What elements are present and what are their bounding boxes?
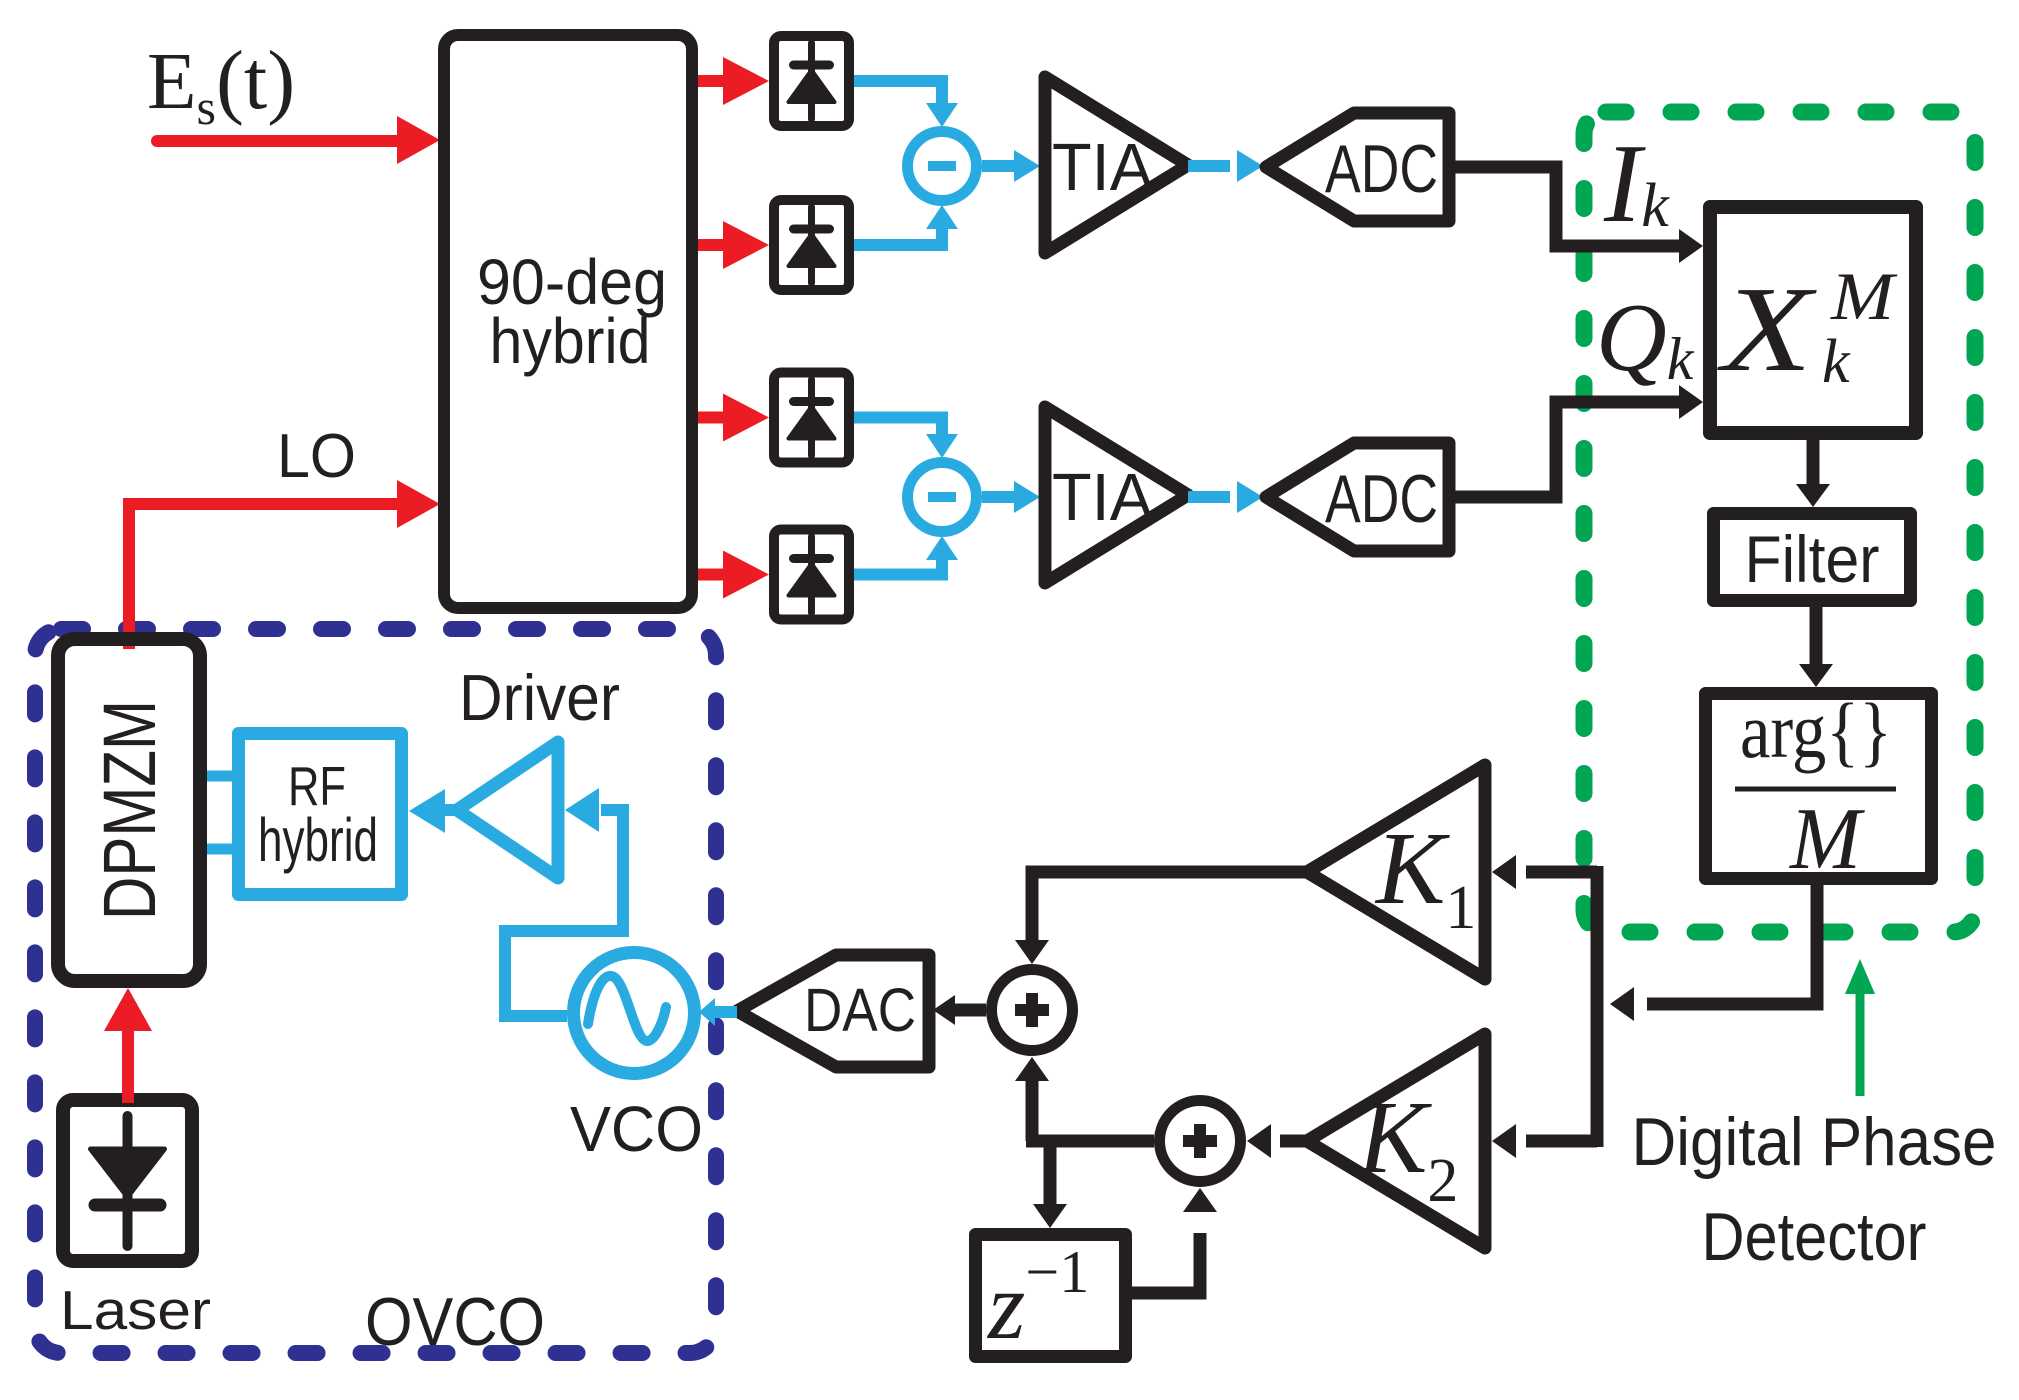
svg-text:TIA: TIA — [1052, 130, 1153, 205]
summer B — [1160, 1101, 1241, 1182]
block arg/M — [1706, 694, 1932, 879]
wire hybrid to PD1 — [698, 75, 728, 87]
wire ADC1 to Xk (I) — [1449, 167, 1680, 246]
green pointer to detector border — [1845, 959, 1875, 1096]
wire summer B to summer A — [1026, 1079, 1039, 1141]
arrowhead into summer A top — [1015, 940, 1049, 964]
arrowhead into Filter — [1796, 484, 1830, 507]
svg-text:DAC: DAC — [804, 976, 916, 1044]
arrowhead I into Xk — [1679, 229, 1703, 263]
arrowhead into K1 — [1492, 855, 1516, 889]
svg-text:hybrid: hybrid — [490, 305, 651, 377]
svg-text:Laser: Laser — [60, 1279, 211, 1341]
wire K1 to summer A — [1032, 872, 1307, 940]
arrowhead into TIA2 — [1014, 481, 1040, 513]
svg-text:z−1: z−1 — [986, 1239, 1089, 1359]
label OVCO — [365, 1284, 545, 1360]
wire PD4 to subtractor S2 — [854, 557, 942, 575]
svg-text:Driver: Driver — [459, 661, 620, 734]
svg-text:M: M — [1788, 791, 1865, 888]
svg-text:DPMZM: DPMZM — [88, 700, 171, 920]
amplifier TIA2 — [1045, 407, 1188, 583]
wire Driver to RF hybrid — [443, 804, 457, 816]
label z^-1 — [986, 1239, 1089, 1359]
block Xk^M — [1710, 207, 1916, 433]
arrowhead into TIA1 — [1014, 150, 1040, 182]
photodiode PD1 — [774, 36, 849, 126]
arrowhead into K-feed node — [1610, 987, 1634, 1021]
wire hybrid to PD4 — [698, 569, 728, 581]
label Es(t) — [147, 34, 295, 135]
laser diode icon — [91, 1116, 165, 1246]
photodiode PD2 — [774, 200, 849, 290]
label ADC2 — [1325, 461, 1438, 537]
arrowhead into S2 top — [926, 434, 958, 458]
svg-text:k: k — [1822, 328, 1851, 396]
wire summer B output — [1026, 1135, 1154, 1148]
arrowhead into ADC1 — [1237, 150, 1263, 182]
svg-text:Ik: Ik — [1603, 122, 1670, 246]
label X — [1716, 262, 1817, 397]
arrowhead into ADC2 — [1237, 481, 1263, 513]
arrowhead into PD2 — [723, 221, 769, 269]
label Driver — [459, 661, 620, 734]
svg-text:LO: LO — [277, 422, 356, 491]
arrowhead into DAC — [933, 995, 955, 1025]
label Filter — [1745, 522, 1880, 596]
wire hybrid to PD3 — [698, 412, 728, 424]
svg-text:OVCO: OVCO — [365, 1284, 545, 1360]
converter ADC1 — [1266, 113, 1449, 221]
label 90-deg — [477, 246, 667, 318]
arrowhead into PD4 — [723, 551, 769, 599]
svg-text:K2: K2 — [1356, 1080, 1458, 1215]
OVCO dashed border — [35, 629, 716, 1353]
subtractor S1 — [908, 132, 977, 201]
label K2 — [1356, 1080, 1458, 1215]
label VCO — [570, 1093, 703, 1165]
label Digital Phase — [1632, 1104, 1997, 1180]
label arg{} — [1740, 687, 1892, 774]
label TIA2 — [1052, 460, 1153, 535]
svg-text:Detector: Detector — [1702, 1199, 1927, 1275]
arrowhead Es into hybrid — [397, 116, 440, 164]
wire hybrid to PD2 — [698, 239, 728, 251]
arrowhead into S2 bottom — [926, 536, 958, 560]
arrowhead Q into Xk — [1679, 385, 1703, 419]
label X sup M — [1830, 258, 1898, 334]
converter ADC2 — [1266, 443, 1449, 551]
wire PD1 to subtractor S1 — [854, 81, 942, 106]
wire Laser to DPMZM — [122, 1030, 134, 1103]
arrowhead into Driver — [565, 788, 599, 832]
amplifier K2 — [1307, 1034, 1485, 1248]
label DPMZM — [88, 700, 171, 920]
wire ADC2 to Xk (Q) — [1449, 402, 1680, 497]
laser box — [63, 1100, 192, 1261]
wire DAC to VCO — [714, 1006, 737, 1018]
arrowhead LO into hybrid — [397, 480, 440, 528]
svg-text:Qk: Qk — [1596, 284, 1695, 392]
svg-text:arg{}: arg{} — [1740, 687, 1892, 774]
block Filter — [1714, 514, 1911, 601]
svg-text:X: X — [1716, 262, 1817, 397]
wire LO from DPMZM — [129, 504, 399, 649]
wire VCO to Driver — [505, 810, 623, 1016]
wire branch to z-1 — [1044, 1141, 1057, 1206]
digital phase detector dashed border — [1584, 112, 1975, 932]
label ADC1 — [1325, 131, 1438, 207]
svg-text:VCO: VCO — [570, 1093, 703, 1165]
label LO — [277, 422, 356, 491]
amplifier K1 — [1307, 765, 1485, 979]
90-deg hybrid box — [444, 35, 692, 608]
amplifier Driver — [457, 742, 558, 878]
svg-text:ADC: ADC — [1325, 131, 1438, 207]
svg-text:ADC: ADC — [1325, 461, 1438, 537]
wire PD3 to subtractor S2 — [854, 418, 942, 438]
wire K2 to summer B — [1280, 1135, 1307, 1148]
arrowhead into S1 top — [926, 103, 958, 127]
svg-text:K1: K1 — [1374, 811, 1476, 942]
arrowhead into PD3 — [723, 394, 769, 442]
wire S1 to TIA1 — [982, 160, 1014, 172]
photodiode PD4 — [774, 530, 849, 620]
arrowhead into DPMZM — [104, 988, 152, 1031]
wire into K1 — [1526, 866, 1597, 879]
wire Es input — [157, 135, 399, 147]
photodiode PD3 — [774, 373, 849, 463]
label M — [1788, 791, 1865, 888]
wire RF hybrid to DPMZM lower — [207, 844, 233, 855]
svg-text:Es(t): Es(t) — [147, 34, 295, 135]
label K1 — [1374, 811, 1476, 942]
block RF hybrid — [239, 734, 402, 895]
svg-text:M: M — [1830, 258, 1898, 334]
fraction bar — [1735, 787, 1896, 792]
block z^-1 — [976, 1235, 1126, 1357]
wire TIA2 to ADC2 — [1188, 491, 1230, 503]
label Qk — [1596, 284, 1695, 392]
svg-text:Digital Phase: Digital Phase — [1632, 1104, 1997, 1180]
arrowhead into S1 bottom — [926, 205, 958, 229]
wire z-1 to summer B — [1132, 1233, 1200, 1293]
label TIA1 — [1052, 130, 1153, 205]
arrowhead into summer A bottom — [1015, 1057, 1049, 1081]
label Detector — [1702, 1199, 1927, 1275]
wire into K2 — [1526, 1135, 1597, 1148]
wire summer A to DAC — [955, 1004, 986, 1017]
arrowhead into VCO — [699, 998, 715, 1026]
arrowhead into K2 — [1492, 1124, 1516, 1158]
label hybrid — [490, 305, 651, 377]
subtractor S2 — [908, 463, 977, 532]
modulator DPMZM — [58, 639, 200, 981]
amplifier TIA1 — [1045, 77, 1188, 253]
arrowhead into summer B bottom — [1183, 1188, 1217, 1212]
arrowhead into RF hybrid — [409, 789, 445, 833]
svg-text:Filter: Filter — [1745, 522, 1880, 596]
wire RF hybrid to DPMZM upper — [207, 771, 233, 782]
oscillator VCO — [574, 953, 695, 1074]
svg-text:hybrid: hybrid — [258, 806, 378, 874]
converter DAC — [737, 955, 929, 1067]
wire K-feed vertical — [1591, 866, 1604, 1147]
arrowhead into arg — [1799, 664, 1833, 687]
label Ik — [1603, 122, 1670, 246]
wire PD2 to subtractor S1 — [854, 226, 942, 245]
wire TIA1 to ADC1 — [1188, 160, 1230, 172]
label RF — [288, 755, 346, 817]
arrowhead into z-1 — [1033, 1204, 1067, 1228]
wire Xk to Filter — [1807, 440, 1820, 485]
label Laser — [60, 1279, 211, 1341]
svg-text:TIA: TIA — [1052, 460, 1153, 535]
summer A — [992, 970, 1073, 1051]
label hybrid (RF) — [258, 806, 378, 874]
wire Filter to arg — [1810, 607, 1823, 665]
arrowhead into PD1 — [723, 57, 769, 105]
arrowhead into summer B right — [1247, 1124, 1271, 1158]
wire S2 to TIA2 — [982, 491, 1014, 503]
wire arg to K-feed — [1647, 885, 1817, 1004]
label DAC — [804, 976, 916, 1044]
label X sub k — [1822, 328, 1851, 396]
